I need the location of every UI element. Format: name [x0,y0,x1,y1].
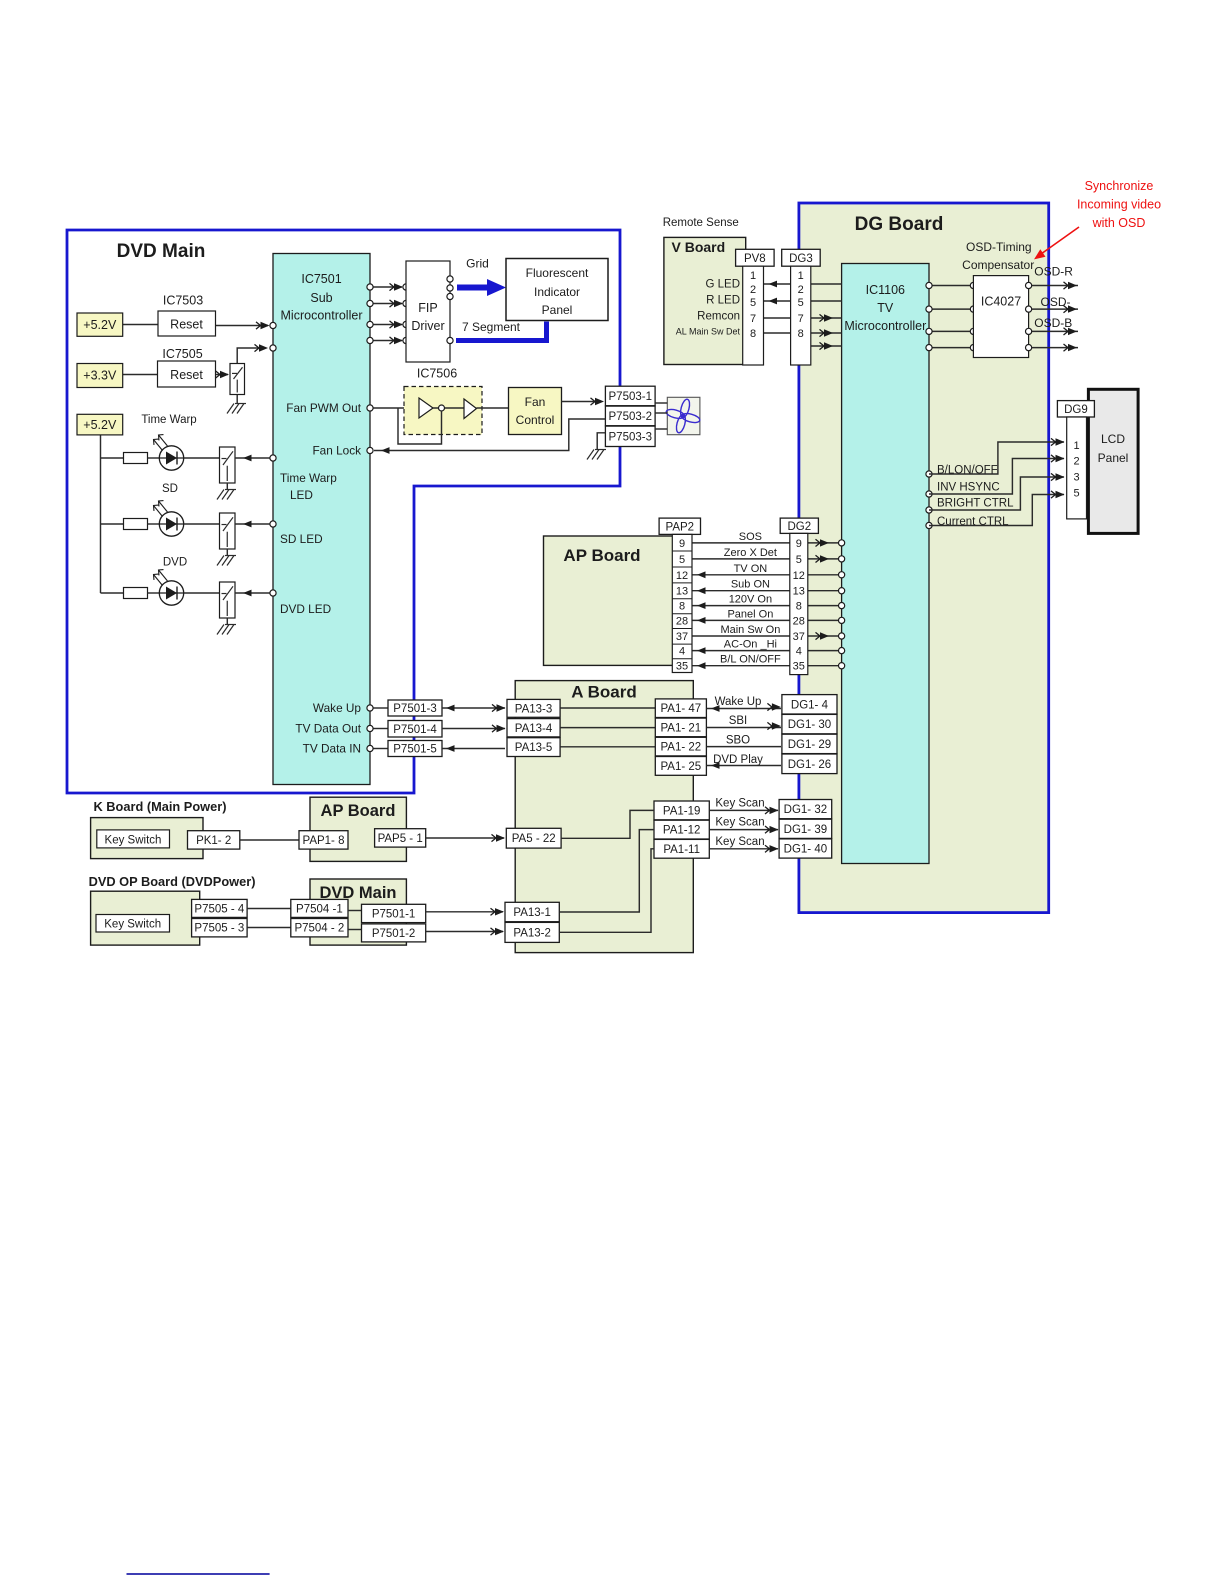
svg-text:DVD: DVD [163,557,187,569]
connector P7501-5 [388,741,442,757]
svg-text:1: 1 [1074,440,1080,452]
wire Key Scan 3 [709,848,778,850]
svg-text:7: 7 [798,313,804,325]
wire PA13-5 to PA1-22 [560,746,655,748]
svg-text:Microcontroller: Microcontroller [281,309,363,323]
svg-text:7 Segment: 7 Segment [462,320,521,334]
svg-text:DG1- 39: DG1- 39 [784,824,827,836]
svg-text:Zero X Det: Zero X Det [724,547,777,559]
reset box IC7503 [158,311,216,336]
wires DG3 to IC1106 [811,283,842,285]
connector P7505-4 [192,899,248,917]
svg-text:Fan PWM Out: Fan PWM Out [286,401,361,415]
svg-text:V Board: V Board [672,239,726,255]
svg-text:Key Switch: Key Switch [105,835,162,847]
wires PV8 to DG3 [764,283,791,285]
svg-text:with OSD: with OSD [1092,216,1146,230]
svg-text:K Board (Main Power): K Board (Main Power) [94,799,227,814]
svg-text:2: 2 [798,284,804,296]
connector DG9 pin strip [1067,417,1087,519]
svg-text:35: 35 [793,661,805,673]
connector DG1-4 [782,695,837,714]
red arrow to compensator [1041,227,1079,254]
svg-text:8: 8 [798,328,804,340]
svg-text:OSD-: OSD- [1041,295,1071,309]
svg-text:8: 8 [750,328,756,340]
wire transistor Time Warp base to IC7501 pin [235,457,270,459]
svg-text:DVD LED: DVD LED [280,602,331,616]
thick blue Grid arrow to fluorescent panel [457,279,506,296]
svg-text:P7501-2: P7501-2 [372,928,415,940]
LED Time Warp [159,446,183,470]
svg-text:SD LED: SD LED [280,532,323,546]
wire resistor to LED SD [148,523,161,525]
wire resistor to LED DVD [148,592,161,594]
connector P7503-1 [605,386,655,406]
svg-text:IC7501: IC7501 [301,272,341,286]
thick blue 7-segment wire [456,322,547,341]
wire LED to transistor DVD [184,592,220,594]
pins B/L ON/OFF etc on IC1106 [926,471,932,477]
arrow DG2 output [816,632,830,639]
svg-text:Wake Up: Wake Up [715,696,762,708]
wire P7501-2 to PA13-2 [426,931,503,933]
svg-text:P7503-2: P7503-2 [609,411,652,423]
svg-text:P7504 - 2: P7504 - 2 [294,923,344,935]
key switch box K board [97,830,170,848]
svg-text:PAP5 - 1: PAP5 - 1 [378,833,423,845]
wire P7505-4 to P7504-1 [247,908,291,910]
connector DG3 label [782,249,821,266]
wire Fan Control to P7503-1 [562,401,597,403]
svg-text:5: 5 [1074,487,1080,499]
svg-text:+5.2V: +5.2V [83,418,117,432]
connector P7501-1 [362,904,426,922]
Fluorescent Indicator Panel box [506,259,608,321]
connector PA13-3 [507,699,560,717]
connector DG9 label [1057,401,1094,417]
svg-text:Panel On: Panel On [727,608,773,620]
svg-text:BRIGHT CTRL: BRIGHT CTRL [937,498,1014,510]
svg-text:5: 5 [798,297,804,309]
svg-text:9: 9 [796,538,802,550]
connector DG3 pin strip [791,266,811,365]
svg-text:Reset: Reset [170,318,203,332]
connector P7501-4 [388,721,442,738]
wire transistor DVD emitter to ground [226,618,228,624]
arrow DG2 output [816,539,830,546]
connector PA5-22 [506,828,561,848]
svg-text:37: 37 [793,631,805,643]
buffer gate 1 [419,398,433,418]
wire BRIGHT CTRL to DG9-3 [929,477,1064,510]
connector PAP5-1 [375,829,426,847]
LCD Panel box [1088,389,1138,533]
connector PAP2 label [659,518,700,534]
svg-text:AP Board: AP Board [563,546,640,565]
svg-text:5: 5 [750,297,756,309]
svg-text:PA1-11: PA1-11 [663,844,700,856]
connector DG1-40 [779,839,832,858]
svg-text:Reset: Reset [170,368,203,382]
wire PA5-22 to PA1-19 [561,810,654,838]
IC U1106 TV microcontroller box [842,264,929,864]
wire P7501-1 to PA13-1 [426,911,503,913]
svg-text:TV Data Out: TV Data Out [295,722,361,736]
board DG Board (green, blue border) [799,203,1049,913]
svg-text:PA1- 21: PA1- 21 [660,722,701,734]
board V Board [664,237,746,364]
svg-text:1: 1 [750,270,756,282]
svg-text:Microcontroller: Microcontroller [844,319,926,333]
svg-text:P7503-3: P7503-3 [609,431,652,443]
svg-text:13: 13 [793,586,805,598]
svg-text:35: 35 [676,661,688,673]
connector PA13-4 [507,719,560,737]
power +5.2V box 1 [77,313,123,336]
svg-text:PA13-4: PA13-4 [515,723,553,735]
Fan Control box [509,388,562,435]
feedback wire of fan driver [398,408,442,444]
svg-text:PA1- 22: PA1- 22 [660,742,701,754]
connector PAP2 pin strip [672,534,692,672]
svg-text:DG1- 40: DG1- 40 [784,844,827,856]
svg-text:DG9: DG9 [1064,404,1088,416]
wire SBO PA1-22 to DG1-29 [706,746,781,748]
board AP Board lower [310,797,406,861]
wire PA13-1 to PA1-12 [559,830,654,912]
wire PA13-4 to PA1-21 [560,727,655,729]
svg-text:PAP2: PAP2 [666,521,695,533]
wire +5.2V LED supply bus [100,435,102,593]
svg-text:DG2: DG2 [787,521,811,533]
wire P7505-3 to P7504-2 [247,927,291,929]
wire Fan PWM Out to buffer [373,407,419,409]
wire PA13-2 to PA1-11 [559,849,654,933]
svg-text:SBO: SBO [726,735,750,747]
wire Key Scan 1 [709,809,778,811]
LED SD [159,512,183,536]
FIP driver output pins (grid group) [447,276,453,282]
ground near P7503-3 [587,450,606,460]
wire P7503-3 to ground [597,433,605,449]
pins Wake Up / TV Data Out / TV Data IN [373,707,388,709]
svg-text:Indicator: Indicator [534,285,580,299]
svg-text:INV HSYNC: INV HSYNC [937,482,1000,494]
svg-text:PV8: PV8 [744,253,766,265]
svg-text:P7503-1: P7503-1 [609,391,652,403]
svg-text:PA13-5: PA13-5 [515,742,553,754]
svg-text:R LED: R LED [706,295,740,307]
transistor Q DVD LED driver [220,582,236,618]
svg-text:DVD OP Board (DVDPower): DVD OP Board (DVDPower) [89,874,256,889]
svg-text:TV Data IN: TV Data IN [303,742,361,756]
svg-text:DG1- 26: DG1- 26 [788,759,831,771]
key switch box DVD OP board [96,915,170,933]
dashed fan driver block [404,387,482,435]
connector PA13-1 [505,902,559,921]
svg-text:5: 5 [796,554,802,566]
wire P7501-3 to PA13-3 (bidirectional) [442,707,505,709]
svg-text:12: 12 [793,570,805,582]
svg-text:Synchronize: Synchronize [1085,179,1154,193]
svg-text:Fluorescent: Fluorescent [526,266,589,280]
wire SBI PA1-21 to DG1-30 [706,727,781,729]
svg-text:AC-On _Hi: AC-On _Hi [724,639,777,651]
svg-text:P7501-1: P7501-1 [372,908,415,920]
power +3.3V box [77,364,123,388]
svg-text:Compensator: Compensator [962,258,1034,272]
wire P7504-1 to P7501-1 [348,910,362,912]
svg-text:SD: SD [162,483,178,495]
svg-text:4: 4 [679,646,685,658]
svg-text:Panel: Panel [1098,451,1129,465]
svg-text:P7505 - 4: P7505 - 4 [194,903,244,915]
connector PA13-5 [507,738,560,757]
svg-text:Key Scan: Key Scan [715,817,764,829]
wire transistor Time Warp emitter to ground [226,483,228,489]
connector PA13-2 [505,922,559,942]
resistor DVD LED [124,588,148,599]
wires IC1106 to IC4027 [929,285,973,287]
LED DVD [159,581,183,605]
board DVD OP Board [91,891,200,945]
svg-text:28: 28 [793,615,805,627]
ground below SD transistor [217,556,236,566]
connector DG1-26 [782,754,837,774]
wire resistor to LED Time Warp [148,457,161,459]
svg-text:PA1- 47: PA1- 47 [660,703,701,715]
svg-text:SOS: SOS [739,531,762,543]
svg-text:Fan Lock: Fan Lock [312,444,361,458]
board DVD Main lower [310,879,406,945]
connector PA1-22 [655,737,706,756]
wire P7504-2 to P7501-2 [348,929,362,931]
IC U7506 FIP driver box [406,261,450,362]
transistor Q SD LED driver [220,513,236,549]
connector P7503-3 [605,426,655,446]
connector P7501-2 [362,924,426,942]
connector PK1-2 [188,831,240,849]
ground below DVD transistor [217,625,236,635]
connector P7505-3 [192,919,248,937]
svg-text:7: 7 [750,313,756,325]
svg-text:PAP1- 8: PAP1- 8 [303,835,345,847]
svg-text:Panel: Panel [542,303,573,317]
svg-text:FIP: FIP [418,301,437,315]
svg-text:Main Sw On: Main Sw On [720,624,780,636]
svg-text:Remcon: Remcon [697,311,740,323]
transistor Q Time Warp LED driver [220,447,236,483]
wire branch to SD LED [101,523,124,525]
connector PA1-47 [655,699,706,718]
svg-text:A Board: A Board [571,683,637,702]
svg-text:Driver: Driver [411,319,444,333]
wire LED to transistor SD [184,523,220,525]
connector DG1-32 [779,800,832,819]
svg-text:Key Scan: Key Scan [715,836,764,848]
wire reset IC7505 to transistor Q7505 [216,374,229,376]
svg-text:8: 8 [679,601,685,613]
svg-text:AL Main Sw Det: AL Main Sw Det [676,327,741,337]
svg-text:8: 8 [796,601,802,613]
svg-text:PA13-3: PA13-3 [515,703,553,715]
connector DG2 pin strip [790,533,808,674]
wire branch to DVD LED [101,592,124,594]
svg-text:DVD Play: DVD Play [713,754,763,766]
svg-text:IC1106: IC1106 [866,283,905,297]
svg-text:Control: Control [516,413,555,427]
wires P7503 to fan [655,402,667,404]
board outline DVD Main (blue polygon) [67,230,620,793]
wire P7503-2 to Fan Lock pin [374,419,605,451]
svg-text:DG1- 30: DG1- 30 [788,719,831,731]
svg-text:2: 2 [750,284,756,296]
svg-text:DVD Main: DVD Main [117,241,206,262]
wire PA13-5 to P7501-5 [442,748,505,750]
connector DG2 label [780,518,818,533]
svg-text:PA1-19: PA1-19 [663,805,701,817]
svg-text:5: 5 [679,554,685,566]
svg-text:13: 13 [676,586,688,598]
svg-text:Incoming video: Incoming video [1077,198,1161,212]
buffer gate 2 [464,399,477,419]
resistor SD LED [124,519,148,530]
connector DG1-29 [782,734,837,753]
connector PA1-12 [654,820,709,839]
svg-text:PK1- 2: PK1- 2 [196,835,231,847]
connector P7501-3 [388,700,442,716]
connector PA1-25 [655,757,706,776]
pins IC4027 right + OSD outputs [1029,285,1078,287]
wire transistor Q7505 emitter to ground [236,395,238,404]
svg-text:IC7506: IC7506 [417,367,457,381]
connector PAP1-8 [299,831,348,849]
wire +3.3V to reset IC7505 [123,374,158,376]
svg-text:P7505 - 3: P7505 - 3 [194,923,244,935]
wire PK1-2 to PAP1-8 [240,839,299,841]
connector P7503-2 [605,406,655,426]
svg-text:B/L ON/OFF: B/L ON/OFF [720,654,781,666]
svg-text:OSD-R: OSD-R [1034,265,1073,279]
wire INV HSYNC to DG9-2 [929,459,1064,495]
wires DG2 to IC1106 [808,542,839,544]
svg-text:OSD-B: OSD-B [1034,316,1072,330]
svg-text:PA13-2: PA13-2 [513,927,551,939]
svg-text:IC4027: IC4027 [981,295,1021,309]
board A Board [515,681,693,953]
wire Key Scan 2 [709,829,778,831]
wire transistor Q7505 collector to IC7501 pin [237,348,260,364]
svg-text:DG3: DG3 [789,253,813,265]
wire reset IC7503 to IC7501 pin [216,325,269,327]
IC U4027 OSD timing compensator box [973,276,1028,358]
wire +5.2V to reset IC7503 [123,324,158,326]
svg-text:LED: LED [290,488,313,502]
svg-text:LCD: LCD [1101,432,1125,446]
connector PV8 pin strip [743,266,764,365]
wire LED to transistor Time Warp [184,457,220,459]
connector PV8 label [736,249,775,266]
board K Board (Main Power) [91,818,203,859]
svg-text:9: 9 [679,538,685,550]
resistor Time Warp LED [124,453,148,464]
wires PAP2 to DG2 with signal labels [692,542,790,544]
connector P7504-1 [291,899,348,917]
svg-text:DG1- 32: DG1- 32 [784,804,827,816]
svg-text:PA1-12: PA1-12 [663,825,701,837]
fan propeller icon [665,398,700,433]
wire transistor DVD base to IC7501 pin [235,592,270,594]
power +5.2V box 2 [77,414,123,435]
wire buffer2 to Fan Control [477,407,509,409]
svg-text:DG Board: DG Board [855,214,944,235]
svg-text:12: 12 [676,570,688,582]
footer blue line [127,1573,270,1575]
connector P7504-2 [291,919,348,937]
svg-text:28: 28 [676,615,688,627]
svg-text:P7501-3: P7501-3 [393,703,436,715]
wire PA13-3 to PA1-47 [560,707,655,709]
svg-text:DG1- 4: DG1- 4 [791,699,829,711]
svg-text:Fan: Fan [525,395,546,409]
svg-text:37: 37 [676,631,688,643]
reset box IC7505 [158,361,216,387]
svg-text:AP Board: AP Board [321,802,396,820]
svg-text:Time Warp: Time Warp [141,414,196,426]
svg-text:Key Scan: Key Scan [715,798,764,810]
svg-text:1: 1 [798,270,804,282]
svg-text:3: 3 [1074,472,1080,484]
wire branch to Time Warp LED [101,457,124,459]
svg-text:+5.2V: +5.2V [83,318,117,332]
svg-text:P7504 -1: P7504 -1 [296,903,343,915]
wire PAP5-1 to PA5-22 [426,837,504,839]
svg-text:SBI: SBI [729,715,748,727]
svg-text:Time Warp: Time Warp [280,471,337,485]
connector PA1-19 [654,801,709,820]
svg-text:Key Switch: Key Switch [104,919,161,931]
ground below Time Warp transistor [217,490,236,500]
svg-text:P7501-4: P7501-4 [393,724,437,736]
wires IC7501 to FIP driver (4 lines) [373,286,402,288]
connector DG1-30 [782,714,837,733]
svg-text:Remote Sense: Remote Sense [663,217,739,229]
transistor Q7505 reset gate [230,364,245,395]
fan motor box [667,397,700,434]
svg-text:2: 2 [1074,456,1080,468]
connector PA1-11 [654,839,709,858]
svg-text:IC7505: IC7505 [162,347,202,361]
connector DG1-39 [779,819,832,838]
svg-text:Sub ON: Sub ON [731,579,770,591]
svg-text:OSD-Timing: OSD-Timing [966,240,1032,254]
svg-text:PA13-1: PA13-1 [513,907,551,919]
svg-text:IC7503: IC7503 [163,294,203,308]
svg-text:Sub: Sub [310,291,332,305]
svg-text:P7501-5: P7501-5 [393,744,436,756]
arrow DG2 output [816,555,830,562]
wire transistor SD base to IC7501 pin [235,523,270,525]
wire DVD Play DG1-26 to PA1-25 [706,765,781,767]
svg-text:Grid: Grid [466,257,489,271]
connector PA1-21 [655,718,706,737]
svg-text:4: 4 [796,646,802,658]
svg-text:PA1- 25: PA1- 25 [660,761,701,773]
svg-text:Wake Up: Wake Up [313,701,362,715]
wire transistor SD emitter to ground [226,549,228,555]
svg-text:PA5 - 22: PA5 - 22 [512,833,556,845]
